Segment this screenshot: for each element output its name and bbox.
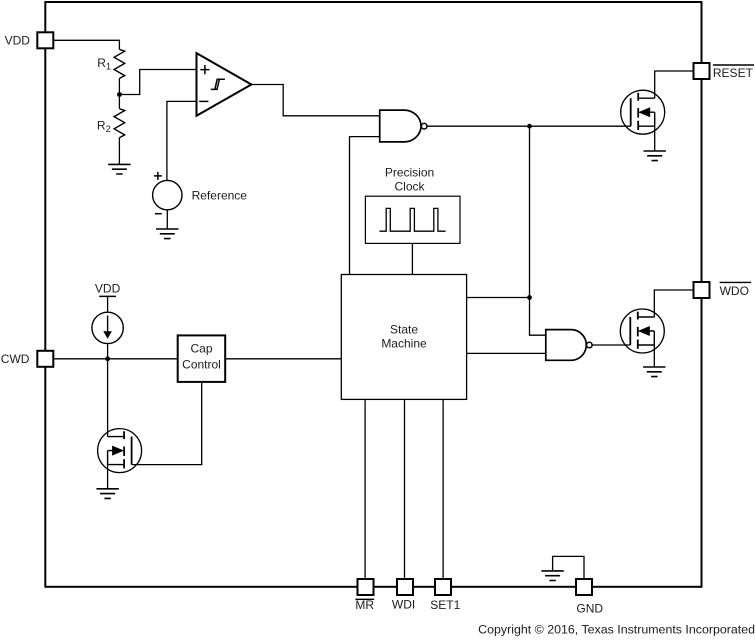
wire state machine to WDI pin — [404, 399, 406, 579]
wire state machine right to NAND U3 input 2 — [467, 352, 546, 354]
wire Q1 drain to RESET pin — [655, 71, 694, 98]
wire comparator output to NAND U2 input 1 — [251, 85, 379, 116]
ground under reference — [156, 229, 178, 239]
comparator hysteresis symbol — [211, 79, 225, 89]
wire Q2 drain to WDO pin — [654, 290, 693, 317]
ground near GND pin — [541, 571, 563, 581]
svg-text:CWD: CWD — [1, 352, 30, 366]
svg-text:Reference: Reference — [192, 189, 248, 203]
wire state machine right to node C — [467, 297, 530, 299]
MOSFET Q1 — [621, 90, 665, 134]
ground under R2 — [108, 164, 130, 174]
svg-text:VDD: VDD — [5, 34, 31, 48]
wire reference to comparator - input — [167, 101, 197, 180]
pin WDO — [694, 282, 710, 298]
comparator + input mark — [200, 65, 209, 74]
svg-text:GND: GND — [576, 602, 603, 616]
wire Q1 source to ground — [654, 126, 656, 151]
wire CWD node to Q3 drain — [107, 359, 109, 437]
svg-text:Precision: Precision — [385, 166, 434, 180]
comparator - input mark — [199, 100, 208, 102]
pin CWD — [37, 351, 53, 367]
svg-text:R2: R2 — [97, 118, 111, 135]
svg-text:Cap: Cap — [190, 342, 212, 356]
wire cap control bottom to Q3 gate — [132, 382, 202, 465]
svg-text:RESET: RESET — [713, 66, 754, 80]
wire NAND U3 output to Q2 gate — [592, 344, 630, 346]
wire vertical net from node B down to NAND U3 input 1 — [530, 126, 546, 335]
svg-text:Clock: Clock — [394, 179, 425, 193]
MOSFET Q2 — [620, 309, 664, 353]
svg-text:State: State — [390, 323, 418, 337]
svg-text:Machine: Machine — [381, 337, 427, 351]
reference - mark — [155, 213, 162, 215]
pin RESET — [694, 63, 710, 79]
reference source V1 — [153, 180, 182, 209]
svg-text:VDD: VDD — [95, 281, 121, 295]
wire NAND U2 output to Q1 gate — [427, 125, 630, 127]
wire R2 bottom to ground — [118, 138, 120, 165]
node A junction dot — [117, 92, 122, 97]
svg-text:SET1: SET1 — [430, 598, 460, 612]
svg-text:Control: Control — [182, 358, 221, 372]
svg-text:Copyright © 2016, Texas Instru: Copyright © 2016, Texas Instruments Inco… — [478, 622, 755, 636]
ground under Q3 — [96, 489, 118, 499]
ground under Q1 — [644, 151, 666, 161]
wire CWD pin to cap control — [53, 358, 177, 360]
svg-text:WDO: WDO — [720, 284, 749, 298]
MOSFET Q3 — [98, 429, 142, 473]
precision clock box — [365, 196, 460, 243]
NAND gate U3 — [546, 330, 587, 361]
wire VDD bar to current source — [107, 296, 109, 312]
NAND U3 output bubble — [587, 342, 593, 348]
wire reference bottom to ground — [166, 210, 168, 229]
node D junction dot — [105, 356, 110, 361]
node C junction dot — [527, 295, 532, 300]
wire node to comparator + input — [119, 70, 196, 95]
pin VDD — [37, 32, 53, 48]
cap control box — [178, 335, 226, 382]
device border frame — [45, 2, 701, 587]
ground under Q2 — [643, 367, 665, 377]
NAND gate U2 — [380, 110, 421, 142]
wire state machine to SET1 pin — [442, 399, 444, 579]
svg-text:R1: R1 — [97, 56, 111, 73]
wire NAND U2 input 2 to state machine top — [350, 137, 380, 275]
current source I1 — [92, 312, 123, 343]
wire R1 bottom to node to R2 top — [118, 78, 120, 108]
node B junction dot — [527, 124, 532, 129]
wire Q2 source to ground — [653, 345, 655, 367]
wire VDD pin to R1 top — [53, 40, 119, 49]
clock waveform — [379, 208, 445, 231]
resistor R2 — [114, 109, 125, 138]
reference + mark — [154, 172, 162, 180]
pin MR — [358, 579, 374, 595]
wire cap control to state machine left — [225, 358, 341, 360]
state machine box — [341, 275, 466, 400]
pin WDI — [397, 579, 413, 595]
pin GND — [576, 579, 592, 595]
wire current source to CWD node — [107, 344, 109, 359]
resistor R1 — [114, 49, 125, 78]
wire clock box to state machine top — [411, 243, 413, 274]
comparator U1 — [197, 53, 252, 116]
wire Q3 source to ground — [107, 465, 109, 489]
pin SET1 — [435, 579, 451, 595]
wire state machine to MR pin — [364, 399, 366, 579]
svg-text:WDI: WDI — [392, 598, 415, 612]
current source arrow — [107, 316, 109, 333]
wire GND pin to ground — [553, 556, 584, 579]
NAND U2 output bubble — [421, 123, 427, 129]
VDD power bar — [99, 295, 116, 297]
